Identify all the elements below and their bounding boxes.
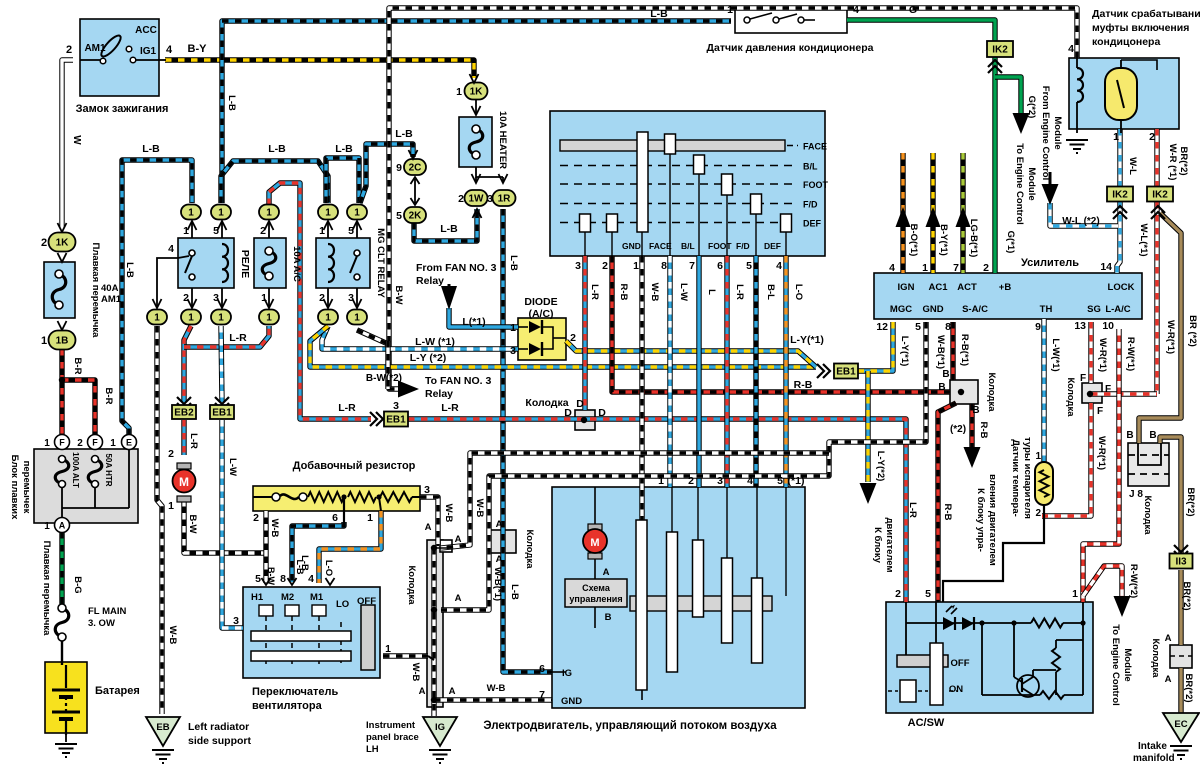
wire W-B resistor pin2 to fan H1 bbox=[263, 511, 268, 583]
wire L-R branch from fuse 10A A/C bbox=[184, 326, 269, 347]
svg-text:1: 1 bbox=[218, 208, 224, 219]
svg-text:IG1: IG1 bbox=[140, 46, 157, 57]
wire B-W from motor M to fan switch bbox=[184, 500, 266, 553]
svg-text:H1: H1 bbox=[251, 592, 264, 603]
wire R-W(*2) branch to engine module bbox=[1083, 566, 1122, 600]
svg-text:2: 2 bbox=[253, 512, 259, 524]
svg-text:A: A bbox=[496, 554, 503, 565]
battery symbol bbox=[52, 665, 80, 735]
chevrons EB2 bbox=[177, 397, 191, 404]
fusible link FL MAIN bbox=[55, 608, 69, 637]
AC/SW LED diodes bbox=[943, 617, 955, 630]
chevrons EB1 bbox=[215, 397, 229, 404]
svg-text:1: 1 bbox=[510, 322, 516, 334]
svg-text:Instrument: Instrument bbox=[366, 720, 416, 731]
svg-text:L-B: L-B bbox=[335, 143, 353, 155]
connector 1R bbox=[493, 190, 516, 206]
heater relay internals bbox=[189, 250, 195, 256]
svg-text:3: 3 bbox=[348, 292, 354, 304]
connector 1W bbox=[465, 190, 488, 206]
svg-text:L-Y (*2): L-Y (*2) bbox=[410, 352, 447, 364]
svg-text:M1: M1 bbox=[310, 592, 324, 603]
svg-text:A: A bbox=[59, 521, 66, 531]
wire B-L panel pin 5 to motor F/D bbox=[753, 256, 758, 487]
svg-text:Батарея: Батарея bbox=[95, 685, 140, 697]
heater relay coil bbox=[222, 244, 228, 282]
svg-text:2: 2 bbox=[66, 44, 72, 56]
svg-text:5: 5 bbox=[348, 225, 354, 237]
svg-text:W-B(*1): W-B(*1) bbox=[935, 335, 946, 369]
svg-text:вентилятора: вентилятора bbox=[252, 700, 323, 712]
svg-text:6: 6 bbox=[717, 260, 723, 272]
svg-text:R-B: R-B bbox=[794, 379, 813, 391]
svg-text:W-B: W-B bbox=[410, 663, 421, 682]
svg-text:W-B: W-B bbox=[487, 683, 506, 694]
svg-text:туры испарителя: туры испарителя bbox=[1022, 437, 1033, 519]
svg-text:TH: TH bbox=[1040, 304, 1053, 315]
svg-text:2: 2 bbox=[602, 260, 608, 272]
blower resistor internals bbox=[258, 496, 272, 498]
wire G(*1) to amp pin 2 bbox=[992, 57, 997, 273]
svg-text:AM1: AM1 bbox=[84, 43, 106, 54]
AC/SW resistor 1 bbox=[1031, 619, 1063, 628]
AC/SW block bbox=[886, 602, 1093, 713]
svg-text:B-W(*2): B-W(*2) bbox=[366, 373, 402, 384]
svg-text:2: 2 bbox=[1035, 508, 1041, 519]
wire R-B(*1) amp pin 8 bbox=[950, 322, 955, 380]
svg-text:FOOT: FOOT bbox=[803, 180, 828, 190]
svg-text:1B: 1B bbox=[56, 336, 69, 347]
wire BR(*2) to connector J8 bbox=[1139, 213, 1181, 443]
svg-text:кондицонера: кондицонера bbox=[1092, 36, 1160, 48]
svg-text:L-W (*1): L-W (*1) bbox=[415, 336, 455, 348]
svg-text:управления: управления bbox=[569, 594, 622, 604]
svg-text:3: 3 bbox=[487, 193, 493, 205]
svg-text:EB2: EB2 bbox=[174, 408, 194, 419]
wire W-B panel pin 1 to motor GND bar bbox=[639, 256, 644, 520]
svg-text:6: 6 bbox=[539, 663, 545, 675]
svg-text:GND: GND bbox=[622, 241, 641, 251]
wire L-W from relay to EB1 bbox=[221, 326, 222, 402]
wire W-B fan switch pin 1 to strip bbox=[383, 653, 428, 658]
svg-text:1: 1 bbox=[354, 208, 360, 219]
svg-text:4: 4 bbox=[747, 475, 753, 487]
svg-text:Плавкая перемычка: Плавкая перемычка bbox=[90, 243, 101, 339]
wire battery positive bbox=[61, 640, 63, 665]
svg-text:Усилитель: Усилитель bbox=[1021, 257, 1079, 269]
svg-text:Left radiator: Left radiator bbox=[188, 721, 249, 733]
wire L-B from 2K to 1W bbox=[414, 209, 477, 241]
svg-text:FACE: FACE bbox=[649, 241, 672, 251]
svg-text:ACC: ACC bbox=[135, 25, 157, 36]
air mix control panel block bbox=[550, 111, 825, 256]
connector IK2 (G) bbox=[987, 41, 1013, 57]
svg-text:1: 1 bbox=[44, 521, 50, 532]
wire BR(*2) to connector A bbox=[1178, 570, 1183, 645]
svg-text:3: 3 bbox=[510, 345, 516, 357]
svg-text:Module: Module bbox=[1026, 167, 1037, 200]
svg-text:L-B: L-B bbox=[142, 143, 160, 155]
wire BR(*2) to EC ground bbox=[1178, 668, 1183, 714]
svg-text:2: 2 bbox=[895, 588, 901, 600]
svg-text:Колодка: Колодка bbox=[524, 529, 535, 569]
svg-text:To Engine Control: To Engine Control bbox=[1110, 624, 1121, 706]
svg-text:10: 10 bbox=[1102, 320, 1114, 332]
svg-text:1: 1 bbox=[110, 438, 116, 449]
svg-text:F: F bbox=[92, 438, 98, 448]
wire L-W(*1) amp TH to thermistor bbox=[1041, 319, 1046, 462]
svg-text:L-R: L-R bbox=[441, 402, 459, 414]
svg-text:1: 1 bbox=[727, 4, 733, 16]
ignition pin 4 stub bbox=[159, 59, 166, 61]
wire L-B to fuse block pin E and relay bbox=[122, 160, 192, 435]
wire L-R panel pin 6 to motor FOOT bbox=[724, 256, 729, 487]
svg-text:DIODE: DIODE bbox=[524, 296, 557, 308]
svg-text:MGC: MGC bbox=[890, 304, 912, 315]
svg-text:A: A bbox=[1165, 633, 1172, 644]
wire L-Y(*1) amp pin 12 to EB1 bbox=[858, 322, 893, 371]
svg-text:Блок плавких: Блок плавких bbox=[9, 455, 20, 520]
wire L-W from EB1 to fan switch pin 3 bbox=[222, 420, 243, 628]
svg-text:2: 2 bbox=[260, 225, 266, 237]
wire W from ignition AM1 bbox=[62, 60, 73, 228]
wire B-G to FL MAIN bbox=[59, 532, 64, 604]
svg-text:M: M bbox=[179, 475, 189, 489]
panel GND slider bbox=[637, 132, 648, 232]
ground point EB2 bbox=[172, 405, 196, 419]
svg-text:3: 3 bbox=[717, 475, 723, 487]
svg-text:4: 4 bbox=[308, 573, 314, 585]
wire W-R from clutch sensor pin 2 bbox=[1154, 129, 1159, 186]
svg-text:B: B bbox=[972, 405, 979, 416]
wire R-W(*1) amp pin 10 to AC/SW pin 1 bbox=[1083, 329, 1119, 602]
arrow L-Y(*2) to engine block bbox=[860, 483, 877, 504]
svg-text:DEF: DEF bbox=[803, 219, 822, 229]
svg-text:AC1: AC1 bbox=[928, 282, 948, 293]
svg-text:Схема: Схема bbox=[582, 583, 611, 593]
svg-text:5: 5 bbox=[213, 225, 219, 237]
svg-text:W: W bbox=[71, 135, 82, 145]
svg-text:A: A bbox=[449, 686, 456, 697]
wire L-B resistor pin 6 to fan M2 bbox=[292, 522, 344, 582]
svg-text:B-O(*1): B-O(*1) bbox=[908, 224, 919, 257]
svg-text:Колодка: Колодка bbox=[986, 372, 997, 412]
svg-text:G(*2): G(*2) bbox=[1026, 96, 1037, 119]
svg-text:1R: 1R bbox=[498, 194, 512, 205]
svg-text:R-B: R-B bbox=[618, 284, 629, 301]
fuse 10A HEATER symbol bbox=[469, 129, 483, 155]
svg-text:B/L: B/L bbox=[803, 162, 818, 172]
svg-text:manifold: manifold bbox=[1133, 753, 1175, 764]
connector strip A (Колодка) bbox=[427, 540, 443, 707]
svg-text:L-R: L-R bbox=[229, 332, 247, 344]
svg-text:L-B: L-B bbox=[395, 128, 413, 140]
diode internals bbox=[518, 326, 528, 328]
svg-text:L-W: L-W bbox=[678, 283, 689, 301]
wire W-L(*2) from engine module bbox=[1050, 203, 1118, 226]
ground triangle IG bbox=[423, 717, 457, 746]
heater relay bbox=[178, 238, 234, 288]
arrow B-O(*1) bbox=[896, 207, 911, 227]
svg-text:W-B: W-B bbox=[649, 283, 660, 302]
wire W-B GND second branch bbox=[441, 453, 829, 548]
svg-text:1: 1 bbox=[658, 475, 664, 487]
fuse 10A HEATER bbox=[459, 117, 492, 167]
connector II3 bbox=[1170, 554, 1193, 569]
svg-text:5: 5 bbox=[746, 260, 752, 272]
svg-text:A: A bbox=[496, 519, 503, 530]
svg-text:3: 3 bbox=[424, 484, 430, 496]
svg-text:L-B: L-B bbox=[124, 262, 135, 278]
connector 1K heater bbox=[465, 83, 488, 100]
svg-text:1: 1 bbox=[168, 500, 174, 512]
svg-text:Переключатель: Переключатель bbox=[252, 686, 338, 698]
svg-text:5: 5 bbox=[396, 210, 402, 222]
fuse 50A HTR bbox=[88, 459, 102, 484]
svg-text:side support: side support bbox=[188, 735, 252, 747]
svg-text:50A HTR: 50A HTR bbox=[104, 453, 113, 486]
wire W-B resistor pin 3 to connector A bbox=[420, 497, 438, 546]
ground point EB1 bbox=[210, 405, 234, 419]
svg-text:F/D: F/D bbox=[803, 200, 818, 210]
wire LG-B(*1) amp pin 7 bbox=[960, 153, 965, 273]
wire W-R(*1) down to connector F link bbox=[1154, 202, 1159, 394]
svg-text:1: 1 bbox=[456, 86, 462, 98]
svg-text:B-R: B-R bbox=[72, 358, 83, 375]
AC/SW internals bbox=[906, 622, 1031, 624]
svg-text:DEF: DEF bbox=[764, 241, 781, 251]
svg-text:1: 1 bbox=[41, 335, 47, 347]
wire L-Y(*2) to EB1 right bbox=[310, 326, 816, 367]
svg-text:IK2: IK2 bbox=[992, 45, 1008, 56]
svg-text:F: F bbox=[1105, 384, 1111, 395]
svg-text:W-R(*1): W-R(*1) bbox=[1165, 320, 1176, 354]
arrow R-B(*2) to engine block bbox=[964, 447, 981, 468]
svg-text:3: 3 bbox=[393, 400, 399, 412]
svg-text:BR(*2): BR(*2) bbox=[1183, 673, 1194, 702]
junction connector B bbox=[958, 389, 964, 395]
svg-text:W-L: W-L bbox=[1127, 157, 1138, 175]
svg-text:F: F bbox=[1080, 373, 1086, 384]
svg-text:EB1: EB1 bbox=[386, 415, 406, 426]
wire L-R from EB2 to motor M bbox=[181, 420, 186, 455]
svg-text:GND: GND bbox=[922, 304, 943, 315]
svg-text:L: L bbox=[706, 289, 717, 295]
svg-text:13: 13 bbox=[1074, 320, 1086, 332]
diode A/C block bbox=[518, 318, 566, 360]
svg-text:B: B bbox=[942, 369, 949, 380]
arrow G(*2) to engine module bbox=[1013, 113, 1030, 134]
wire BR(*2) from J8 down bbox=[1160, 437, 1181, 554]
svg-text:8: 8 bbox=[945, 321, 951, 333]
svg-text:A: A bbox=[425, 522, 432, 533]
svg-text:14: 14 bbox=[1100, 261, 1112, 273]
svg-text:B-G: B-G bbox=[72, 576, 83, 593]
fusible link 40A AM1 box bbox=[44, 262, 75, 318]
svg-text:1: 1 bbox=[319, 225, 325, 237]
svg-text:1: 1 bbox=[218, 313, 224, 324]
svg-text:M2: M2 bbox=[281, 592, 294, 603]
svg-text:FOOT: FOOT bbox=[708, 241, 732, 251]
svg-text:L-R: L-R bbox=[338, 402, 356, 414]
svg-text:ACT: ACT bbox=[957, 282, 977, 293]
svg-text:4: 4 bbox=[166, 44, 173, 56]
svg-text:B: B bbox=[1149, 430, 1156, 441]
svg-text:2: 2 bbox=[41, 237, 47, 249]
connector 2K bbox=[404, 207, 426, 223]
svg-text:перемычек: перемычек bbox=[21, 461, 32, 514]
wire W-B inside connector strip bbox=[431, 548, 436, 716]
relay connector ovals top bbox=[181, 205, 201, 220]
svg-text:7: 7 bbox=[689, 260, 695, 272]
chevrons II3 bbox=[1174, 545, 1188, 552]
fuse 10A A/C bbox=[254, 238, 286, 288]
svg-text:F/D: F/D bbox=[736, 241, 750, 251]
arrow B-Y(*1) bbox=[926, 207, 941, 227]
svg-text:From FAN NO. 3: From FAN NO. 3 bbox=[416, 262, 497, 274]
arrow From Engine Control Module bbox=[1042, 184, 1059, 205]
svg-text:FL MAIN: FL MAIN bbox=[88, 606, 126, 617]
svg-text:W-B(*1): W-B(*1) bbox=[492, 567, 503, 601]
arrow From FAN NO.3 Relay bbox=[441, 286, 457, 310]
svg-text:G: G bbox=[909, 4, 917, 16]
svg-text:W-B: W-B bbox=[167, 626, 178, 645]
svg-text:2C: 2C bbox=[409, 163, 422, 174]
svg-text:1: 1 bbox=[1113, 131, 1119, 143]
magnetic clutch relay MG CLT bbox=[316, 238, 370, 288]
arrow To FAN NO.3 Relay bbox=[398, 381, 419, 398]
svg-text:4: 4 bbox=[853, 4, 859, 16]
svg-text:Датчик давления кондиционера: Датчик давления кондиционера bbox=[707, 42, 874, 54]
connector J8 box bbox=[1128, 443, 1169, 486]
svg-text:Датчик темпера-: Датчик темпера- bbox=[1010, 439, 1021, 517]
svg-text:R-W(*1): R-W(*1) bbox=[1125, 337, 1136, 371]
wire W-B to motor GND pin 7 bbox=[434, 697, 552, 702]
svg-text:L-R: L-R bbox=[907, 502, 918, 518]
svg-text:AC/SW: AC/SW bbox=[908, 717, 945, 729]
EC ground symbol bbox=[1170, 746, 1192, 759]
fuse 10A A/C symbol bbox=[262, 251, 276, 276]
svg-text:1K: 1K bbox=[56, 238, 70, 249]
svg-text:2: 2 bbox=[570, 332, 576, 344]
svg-text:1: 1 bbox=[922, 262, 928, 274]
svg-text:100A ALT: 100A ALT bbox=[71, 452, 80, 488]
air flow motor block (Электродвигатель) bbox=[552, 487, 805, 708]
wire B-Y from ignition IG1 bbox=[165, 60, 474, 78]
svg-text:Плавкая перемычка: Плавкая перемычка bbox=[41, 541, 52, 637]
svg-text:5: 5 bbox=[915, 321, 921, 333]
svg-text:W-R(*1): W-R(*1) bbox=[1096, 436, 1107, 470]
svg-text:L-Y(*1): L-Y(*1) bbox=[790, 334, 824, 346]
wire L-B to pressure sensor bbox=[222, 21, 731, 203]
svg-text:L-B: L-B bbox=[268, 143, 286, 155]
connector A two-cell box bbox=[488, 530, 516, 553]
svg-text:From Engine Control: From Engine Control bbox=[1040, 86, 1051, 180]
svg-text:D: D bbox=[576, 398, 584, 410]
ground point EB1 (3) bbox=[384, 412, 408, 427]
control panel internals bbox=[560, 140, 785, 151]
svg-text:F: F bbox=[1097, 406, 1103, 417]
wire L-W panel pin 8 to motor FACE bbox=[667, 256, 672, 487]
svg-text:(*1): (*1) bbox=[788, 475, 805, 487]
amplifier block (Усилитель) bbox=[874, 273, 1142, 319]
svg-text:1W: 1W bbox=[469, 194, 485, 205]
wire B-W(*2) down segment bbox=[385, 341, 390, 389]
svg-text:EC: EC bbox=[1174, 719, 1187, 730]
svg-text:G(*1): G(*1) bbox=[1005, 231, 1016, 254]
svg-text:2: 2 bbox=[458, 193, 464, 205]
MG CLT relay internals bbox=[328, 244, 334, 282]
svg-text:ON: ON bbox=[949, 684, 963, 695]
svg-text:(*2): (*2) bbox=[950, 424, 966, 435]
svg-text:LO: LO bbox=[336, 599, 349, 610]
svg-text:IG: IG bbox=[562, 668, 572, 679]
svg-text:Relay: Relay bbox=[425, 388, 453, 400]
svg-text:BR (*2): BR (*2) bbox=[1187, 315, 1198, 347]
svg-text:AM1: AM1 bbox=[101, 294, 122, 305]
svg-text:D: D bbox=[564, 407, 572, 419]
svg-text:W-B: W-B bbox=[443, 504, 454, 523]
wire W-R(*1) link connector F to sensor line bbox=[1091, 391, 1157, 396]
svg-text:BR(*2): BR(*2) bbox=[1178, 146, 1189, 175]
wire B-O(*1) amp pin 4 bbox=[900, 153, 905, 273]
wire L-O panel pin 4 to motor DEF bbox=[783, 256, 788, 487]
wire W-B top bus to clutch sensor / fan relay bbox=[389, 8, 1077, 389]
svg-text:W-B: W-B bbox=[474, 499, 485, 518]
svg-text:M: M bbox=[590, 537, 599, 549]
svg-text:A: A bbox=[455, 593, 462, 604]
svg-text:9: 9 bbox=[1035, 321, 1041, 333]
connector IK2 (W-L) bbox=[1107, 187, 1133, 202]
wire L(*1) from fan relay to diode pin 1 bbox=[449, 308, 518, 327]
svg-text:L-W(*1): L-W(*1) bbox=[1050, 338, 1061, 371]
svg-text:A: A bbox=[419, 686, 426, 697]
svg-text:D: D bbox=[598, 407, 606, 419]
svg-text:10A A/C: 10A A/C bbox=[291, 246, 302, 282]
relay pin 1 lead bbox=[191, 222, 193, 238]
arrow LG-B(*1) bbox=[956, 207, 971, 227]
junction connector D bbox=[581, 417, 587, 423]
svg-text:L-B: L-B bbox=[650, 8, 668, 20]
svg-text:Колодка: Колодка bbox=[1142, 495, 1153, 535]
ignition internal lead bbox=[80, 59, 101, 61]
wire L-R from fuse 10A A/C to EB1 bbox=[269, 183, 371, 419]
svg-text:1: 1 bbox=[1035, 451, 1041, 462]
svg-text:panel brace: panel brace bbox=[366, 732, 419, 743]
svg-text:E: E bbox=[126, 438, 132, 448]
wire W-B branch from MG CLT pin 3 bbox=[357, 330, 388, 344]
svg-text:B: B bbox=[605, 612, 612, 623]
wire R-B from connector B to AC/SW pin 5 bbox=[938, 403, 956, 602]
svg-text:EB1: EB1 bbox=[212, 408, 232, 419]
thermistor (Датчик температуры испарителя) bbox=[1035, 462, 1053, 505]
clutch sensor internals bbox=[1077, 68, 1083, 102]
svg-text:L-B: L-B bbox=[226, 95, 237, 111]
pressure sensor internals bbox=[744, 17, 750, 23]
ignition switch block bbox=[80, 19, 159, 96]
svg-text:8: 8 bbox=[661, 260, 667, 272]
svg-text:Колодка: Колодка bbox=[525, 397, 568, 409]
svg-text:3. OW: 3. OW bbox=[88, 618, 115, 629]
wire L-Y(*2) branch to engine control bbox=[865, 371, 870, 482]
svg-text:B-Y(*1): B-Y(*1) bbox=[938, 224, 949, 256]
svg-text:2K: 2K bbox=[409, 211, 423, 222]
AC/SW resistor 3 bbox=[1040, 691, 1064, 699]
ground point EB1 right bbox=[834, 364, 858, 379]
ground triangle EB bbox=[146, 717, 180, 746]
svg-text:1: 1 bbox=[261, 292, 267, 304]
relay pin 4 lead bbox=[157, 258, 178, 306]
